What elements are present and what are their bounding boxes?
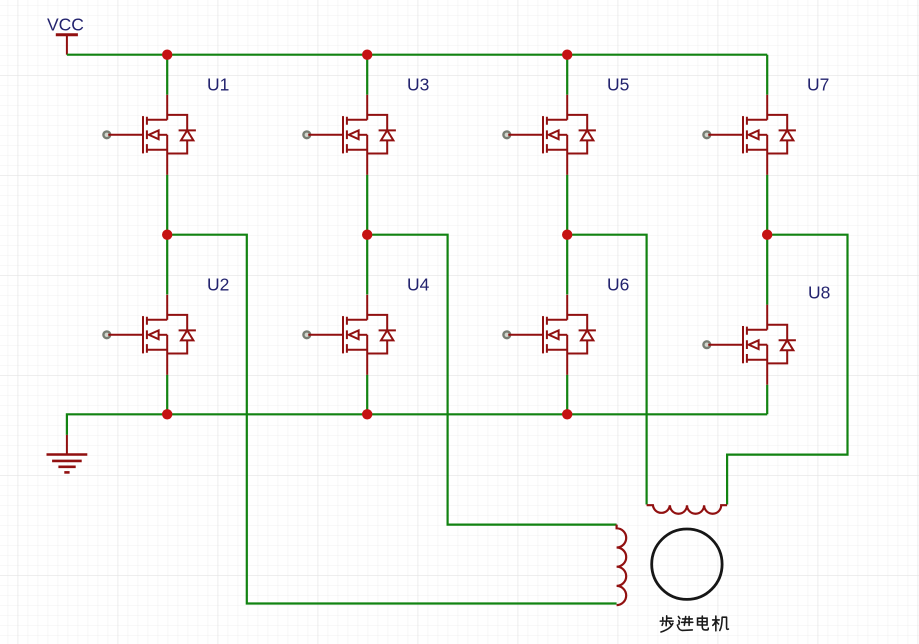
wire: column3 vertical: [566, 55, 568, 415]
inductor L2 (horizontal coil, phase B): [647, 505, 728, 514]
svg-text:U1: U1: [207, 75, 229, 95]
wire: top VCC rail: [67, 54, 767, 56]
wire: phase A1 (col1 mid to coil bottom): [167, 235, 616, 604]
svg-text:VCC: VCC: [47, 15, 84, 35]
svg-text:U3: U3: [407, 75, 429, 95]
transistor U2: [103, 295, 196, 375]
junction bottom col1: [162, 409, 172, 419]
transistor U3: [303, 95, 396, 175]
ground symbol: [47, 435, 88, 473]
glyph 电: [698, 616, 709, 630]
glyph 步: [660, 616, 673, 632]
transistor U7: [703, 95, 796, 175]
junction mid col4: [762, 230, 772, 240]
junction top col1: [162, 50, 172, 60]
transistor U8: [703, 305, 796, 385]
svg-text:U5: U5: [607, 75, 629, 95]
junction mid col1: [162, 230, 172, 240]
wire: bottom ground rail: [67, 414, 767, 435]
transistor U1: [103, 95, 196, 175]
glyph 进: [677, 617, 692, 631]
junction top col2: [362, 50, 372, 60]
stepper motor circle: [652, 529, 722, 599]
junction bottom col2: [362, 409, 372, 419]
junction top col3: [562, 50, 572, 60]
inductor L1 (vertical coil, phase A): [617, 525, 627, 606]
wire: phase A2 (col2 mid to coil top): [367, 235, 616, 525]
glyph 机: [713, 616, 729, 631]
svg-text:U8: U8: [808, 283, 830, 303]
motor label 步进电机 (drawn as strokes): [660, 616, 728, 632]
svg-text:U2: U2: [207, 275, 229, 295]
wire: phase B2 (col4 mid to coil right): [727, 235, 847, 505]
wire: phase B1 (col3 mid to coil left): [567, 235, 646, 505]
svg-text:U6: U6: [607, 275, 629, 295]
wire: column1 vertical: [166, 55, 168, 415]
svg-text:U4: U4: [407, 275, 430, 295]
junction bottom col3: [562, 409, 572, 419]
svg-text:U7: U7: [807, 75, 829, 95]
wire: column2 vertical: [366, 55, 368, 415]
transistor U6: [503, 295, 596, 375]
wire: column4 vertical: [766, 55, 768, 415]
VCC power symbol: [56, 35, 78, 55]
junction mid col3: [562, 230, 572, 240]
transistor U5: [503, 95, 596, 175]
transistor U4: [303, 295, 396, 375]
junction mid col2: [362, 230, 372, 240]
